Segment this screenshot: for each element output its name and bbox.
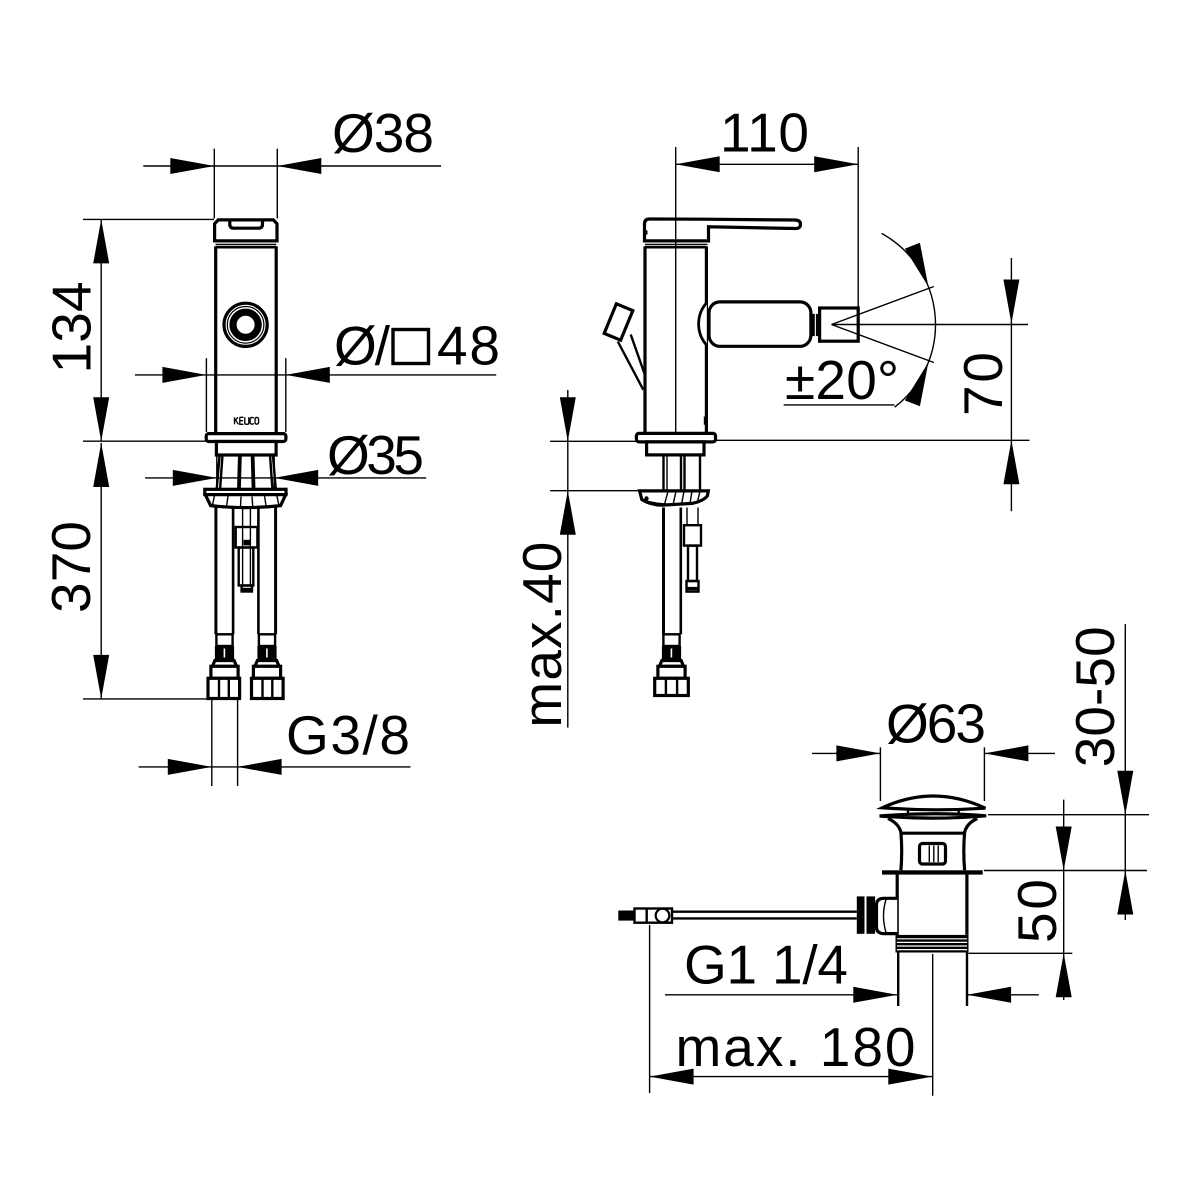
drain valve detail xyxy=(920,844,946,865)
svg-text:30-50: 30-50 xyxy=(1064,626,1126,767)
svg-text:134: 134 xyxy=(40,281,102,373)
dimension max. 180 xyxy=(650,925,933,1093)
svg-text:Ø/: Ø/ xyxy=(334,315,391,377)
dimension G3/8 xyxy=(139,699,411,786)
svg-text:max.40: max.40 xyxy=(511,542,573,728)
dimension Ø38 xyxy=(143,102,441,218)
front left hose fitting xyxy=(208,634,240,698)
side body xyxy=(645,246,706,433)
front left hose xyxy=(216,508,233,635)
drain side port xyxy=(877,898,898,933)
front threaded shank xyxy=(217,455,276,491)
front aerator circle xyxy=(224,303,267,346)
drain rod end xyxy=(618,909,672,923)
drain flange xyxy=(882,870,983,874)
svg-text:110: 110 xyxy=(720,101,809,163)
drain dome cap xyxy=(882,796,985,814)
drain neck and barrel xyxy=(888,819,977,871)
drain pipe lower xyxy=(898,953,967,1007)
side body clip mark xyxy=(704,417,708,425)
svg-text:Ø38: Ø38 xyxy=(332,102,434,164)
side tubes xyxy=(664,455,701,491)
side base plate xyxy=(636,433,715,442)
front base plate xyxy=(206,434,286,442)
side spray nozzle xyxy=(820,308,859,341)
side tail block xyxy=(647,442,704,455)
side spray clamp xyxy=(812,314,819,336)
dimension Ø63 xyxy=(812,692,1055,801)
svg-text:G1 1/4: G1 1/4 xyxy=(684,934,848,996)
front body xyxy=(216,246,277,433)
KEUCO logo xyxy=(235,417,259,424)
side cone washer xyxy=(640,491,709,505)
drain pull rod xyxy=(672,912,857,919)
dimension 134 xyxy=(40,219,214,441)
side spray cylinder xyxy=(699,302,811,346)
svg-text:48: 48 xyxy=(437,315,500,377)
angle arc ±20° xyxy=(784,233,936,411)
dimension G1 1/4 xyxy=(665,934,1039,1003)
svg-text:Ø63: Ø63 xyxy=(886,692,986,754)
dimension Ø35 xyxy=(145,424,426,486)
svg-text:±20°: ±20° xyxy=(785,349,899,411)
dimension max.40 xyxy=(511,390,641,728)
front cone washer xyxy=(205,489,286,507)
svg-text:Ø35: Ø35 xyxy=(327,424,424,486)
dimension 50 xyxy=(969,800,1148,1000)
dimension Ø/□48 xyxy=(135,315,500,433)
side hose fitting xyxy=(655,634,689,695)
side hose xyxy=(664,508,681,635)
side cap lower thin line xyxy=(645,243,708,245)
front cap lower thin line xyxy=(216,243,277,245)
dimension 30-50 xyxy=(988,624,1149,920)
drain port nut xyxy=(857,896,875,933)
angle fan lines xyxy=(832,287,1029,363)
front right hose fitting xyxy=(252,634,284,698)
drain pipe upper xyxy=(897,875,967,935)
svg-text:max. 180: max. 180 xyxy=(676,1016,916,1078)
front view cap xyxy=(215,220,277,241)
drain centerline xyxy=(932,954,934,1096)
dimension 110 xyxy=(676,101,859,433)
front tail block xyxy=(216,442,276,456)
front right hose xyxy=(258,508,275,635)
drain seal disc xyxy=(880,814,987,818)
dimension 370 xyxy=(40,443,212,699)
svg-text:G3/8: G3/8 xyxy=(286,704,410,766)
dimension 70 xyxy=(714,258,1030,511)
drain threads xyxy=(896,935,969,953)
side view cap and lever xyxy=(645,219,801,241)
svg-text:370: 370 xyxy=(40,521,102,613)
side drain knob xyxy=(604,304,645,390)
front pull rod xyxy=(236,508,258,592)
side pull rod xyxy=(684,508,701,592)
